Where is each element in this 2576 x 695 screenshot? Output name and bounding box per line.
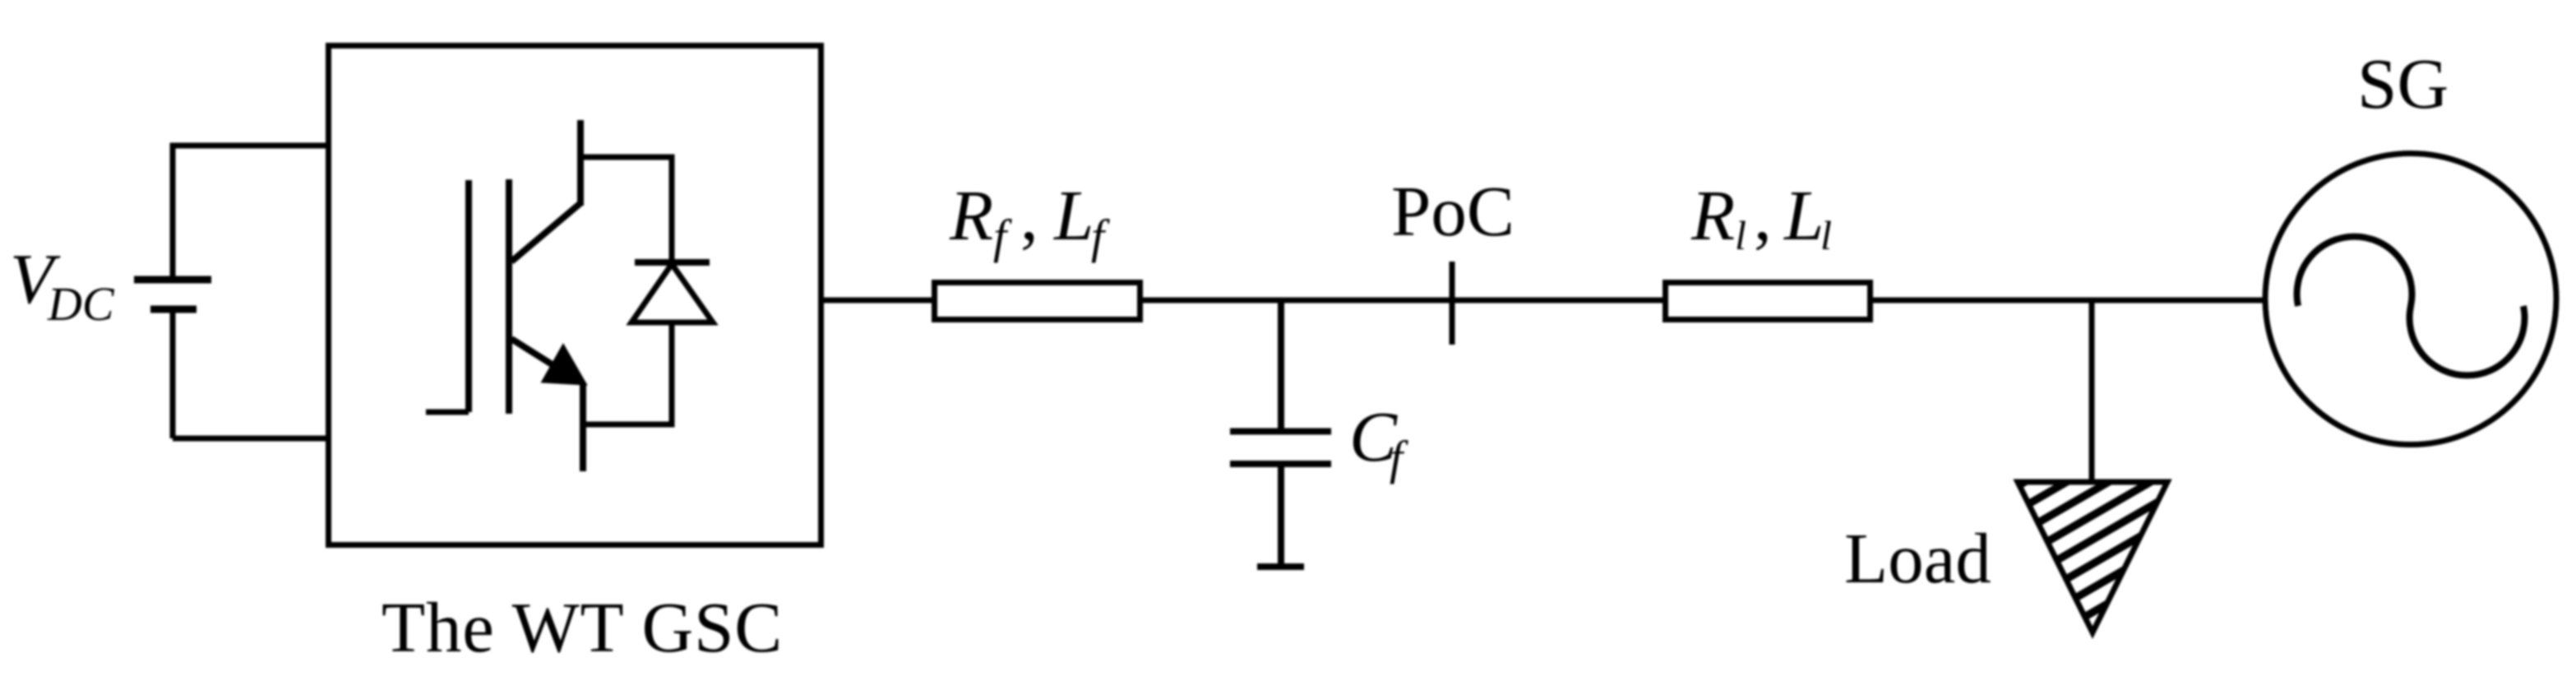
capacitor Cf bottom plate [1230, 461, 1331, 467]
battery VDC negative plate [150, 306, 197, 313]
wire diode anode to emitter [583, 322, 672, 424]
transistor Q1 IGBT body bar [506, 179, 512, 414]
wire battery top [173, 146, 328, 438]
capacitor Cf top plate [1230, 429, 1331, 435]
wire GSC output [824, 298, 932, 303]
wire Cf to terminal [1278, 467, 1284, 567]
resistor Rf Lf [935, 283, 1140, 320]
svg-text:Load: Load [1844, 518, 1991, 598]
wire battery bottom [173, 436, 328, 442]
terminal bar Cf bottom [1257, 563, 1304, 570]
label VDC [10, 239, 115, 331]
battery VDC positive plate [134, 276, 211, 284]
load hatched triangle [2018, 482, 2167, 632]
svg-text:,: , [1754, 175, 1772, 255]
label Rl Ll [1690, 175, 1832, 258]
diode D1 triangle [631, 264, 713, 322]
node PoC tick [1450, 262, 1455, 345]
transistor Q1 IGBT gate bar [465, 180, 472, 412]
svg-text:f: f [1091, 210, 1110, 263]
transistor Q1 IGBT emitter lead [580, 382, 586, 471]
svg-text:f: f [1390, 431, 1408, 484]
generator SG sine wave [2297, 237, 2525, 376]
svg-text:,: , [1020, 175, 1038, 255]
label Rf Lf [949, 175, 1110, 263]
generator SG circle [2265, 154, 2556, 445]
svg-text:DC: DC [47, 277, 115, 331]
wire node to Cf [1278, 300, 1284, 429]
transistor Q1 IGBT emitter diagonal [511, 339, 556, 367]
wire Rf to Rl through PoC [1143, 298, 1663, 303]
diode D1 cathode bar [635, 259, 710, 266]
converter box The WT GSC [329, 46, 821, 545]
wire Rl to SG [1873, 298, 2265, 303]
svg-text:R: R [949, 175, 993, 255]
svg-text:l: l [1735, 212, 1746, 258]
svg-text:PoC: PoC [1391, 171, 1515, 251]
svg-text:The WT GSC: The WT GSC [382, 587, 783, 667]
svg-text:l: l [1820, 212, 1832, 258]
wire junction to load [2089, 300, 2095, 482]
transistor Q1 IGBT collector diagonal [511, 203, 580, 262]
resistor Rl Ll [1666, 283, 1871, 320]
transistor Q1 IGBT collector lead [577, 120, 584, 206]
label Cf [1349, 396, 1408, 484]
svg-text:R: R [1690, 175, 1735, 255]
svg-text:SG: SG [2357, 44, 2449, 123]
svg-text:L: L [1783, 175, 1824, 255]
svg-text:L: L [1052, 175, 1094, 255]
svg-text:f: f [993, 210, 1012, 263]
wire collector to diode cathode [580, 157, 672, 262]
transistor Q1 IGBT emitter arrow [543, 345, 585, 384]
transistor Q1 IGBT gate lead [426, 410, 469, 415]
